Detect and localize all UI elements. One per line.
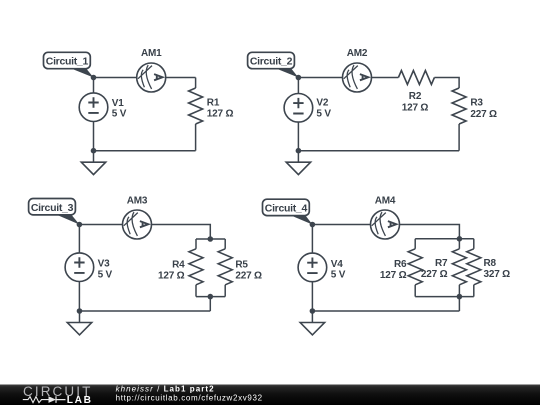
resistor R1 bbox=[189, 88, 203, 124]
svg-text:http://circuitlab.com/cfefuzw2: http://circuitlab.com/cfefuzw2xv932 bbox=[116, 394, 263, 403]
wire top rail C4 left bbox=[312, 224, 370, 226]
wire left rail C2 bottom bbox=[297, 122, 299, 151]
resistor R7 bbox=[452, 249, 466, 285]
svg-text:Circuit_3: Circuit_3 bbox=[31, 202, 74, 214]
svg-text:227 Ω: 227 Ω bbox=[470, 109, 497, 120]
label Circuit_4 bbox=[263, 199, 313, 224]
svg-text:LAB: LAB bbox=[67, 395, 93, 405]
wire top rail C2 left bbox=[298, 77, 342, 79]
svg-text:AM3: AM3 bbox=[127, 195, 148, 206]
svg-text:Circuit_1: Circuit_1 bbox=[46, 56, 89, 68]
svg-text:127 Ω: 127 Ω bbox=[402, 102, 429, 113]
ammeter AM2 bbox=[343, 63, 372, 92]
R6 bottom stub bbox=[414, 285, 416, 297]
node C2 top bbox=[296, 75, 302, 81]
svg-text:327 Ω: 327 Ω bbox=[484, 269, 511, 280]
resistor R3 bbox=[452, 88, 466, 124]
footer background bbox=[0, 385, 540, 405]
voltage source V2 bbox=[284, 94, 313, 123]
resistor R8 bbox=[467, 249, 481, 285]
svg-text:Circuit_4: Circuit_4 bbox=[265, 203, 308, 215]
R8 top stub bbox=[473, 239, 475, 249]
wire bottom rail C1 bbox=[94, 150, 196, 152]
node C1 bottom bbox=[91, 148, 97, 154]
wire bottom rail C3 bbox=[80, 310, 211, 312]
R5 bottom stub bbox=[224, 285, 226, 297]
node C1 top bbox=[91, 75, 97, 81]
node C3 bottom bbox=[77, 308, 83, 314]
svg-text:5 V: 5 V bbox=[112, 109, 127, 120]
logo diode bbox=[49, 396, 57, 403]
svg-text:AM2: AM2 bbox=[347, 48, 368, 59]
svg-text:5 V: 5 V bbox=[316, 108, 331, 119]
wire C4 ammeter to corner bbox=[400, 225, 460, 239]
node C3 parallel top bbox=[208, 236, 214, 242]
wire left rail C4 bottom bbox=[311, 282, 313, 311]
wire C2 ammeter to R2 bbox=[372, 77, 399, 79]
wire top rail C3 left bbox=[79, 224, 122, 226]
label Circuit_3 bbox=[29, 199, 80, 225]
R4 top stub bbox=[195, 239, 197, 249]
resistor R2 bbox=[398, 71, 434, 85]
svg-text:Circuit_2: Circuit_2 bbox=[250, 56, 293, 68]
wire left rail C3 top bbox=[78, 225, 80, 253]
svg-text:R7: R7 bbox=[435, 258, 448, 269]
wire left rail C1 bottom bbox=[93, 122, 95, 151]
resistor R6 bbox=[408, 249, 422, 285]
wire right rail C1 bottom stub bbox=[195, 124, 197, 151]
ground C2 bbox=[286, 151, 310, 175]
ammeter AM1 bbox=[137, 63, 166, 92]
svg-text:R2: R2 bbox=[409, 91, 422, 102]
wire bottom rail C2 bbox=[298, 150, 459, 152]
svg-text:127 Ω: 127 Ω bbox=[380, 270, 407, 281]
svg-text:127 Ω: 127 Ω bbox=[158, 271, 185, 282]
svg-text:V1: V1 bbox=[112, 98, 124, 109]
wire C3 ammeter to corner bbox=[152, 225, 211, 240]
wire C2 R2 to corner bbox=[434, 78, 459, 89]
ground C1 bbox=[81, 151, 105, 175]
svg-text:5 V: 5 V bbox=[98, 269, 113, 280]
voltage source V4 bbox=[298, 253, 327, 282]
wire left rail C2 top bbox=[297, 78, 299, 94]
svg-text:5 V: 5 V bbox=[331, 270, 346, 281]
R7 bottom stub bbox=[458, 285, 460, 297]
R4 bottom stub bbox=[195, 285, 197, 297]
wire right rail C2 bottom stub bbox=[458, 124, 460, 151]
svg-text:V2: V2 bbox=[316, 98, 328, 109]
R8 bottom stub bbox=[473, 285, 475, 297]
label Circuit_2 bbox=[248, 52, 299, 77]
wire top rail C1 bbox=[94, 77, 137, 79]
svg-text:R5: R5 bbox=[235, 259, 248, 270]
wire C3 bottom feed bbox=[209, 297, 211, 311]
svg-text:R6: R6 bbox=[394, 259, 407, 270]
svg-text:R3: R3 bbox=[470, 98, 483, 109]
R6 top stub bbox=[414, 239, 416, 249]
svg-text:R1: R1 bbox=[207, 98, 220, 109]
ground C4 bbox=[300, 311, 324, 335]
node C4 top bbox=[310, 222, 316, 228]
parallel top bar C4 bbox=[415, 238, 474, 240]
wire left rail C4 top bbox=[311, 225, 313, 254]
node C4 parallel top bbox=[457, 236, 463, 242]
R7 top stub bbox=[458, 239, 460, 249]
resistor R4 bbox=[189, 249, 203, 285]
svg-text:AM1: AM1 bbox=[141, 48, 162, 59]
wire bottom rail C4 bbox=[312, 310, 459, 312]
wire C1 ammeter to corner bbox=[166, 77, 196, 79]
wire left rail C1 top bbox=[93, 78, 95, 93]
R5 top stub bbox=[224, 239, 226, 249]
node C4 bottom bbox=[310, 308, 316, 314]
node C3 parallel bottom bbox=[208, 294, 214, 300]
node C4 parallel bottom bbox=[457, 294, 463, 300]
svg-text:V3: V3 bbox=[98, 259, 110, 270]
parallel bottom bar C4 bbox=[415, 296, 474, 298]
wire right rail C1 top stub bbox=[195, 78, 197, 89]
svg-text:khneissr / Lab1 part2: khneissr / Lab1 part2 bbox=[116, 385, 215, 394]
voltage source V3 bbox=[65, 253, 94, 282]
svg-text:V4: V4 bbox=[331, 259, 343, 270]
node C3 top bbox=[77, 222, 83, 228]
resistor R5 bbox=[218, 249, 232, 285]
wire C4 bottom feed bbox=[458, 297, 460, 311]
svg-text:AM4: AM4 bbox=[375, 195, 396, 206]
parallel bottom bar C3 bbox=[196, 296, 225, 298]
node C2 bottom bbox=[296, 148, 302, 154]
logo resistor squiggle bbox=[23, 397, 49, 403]
ground C3 bbox=[67, 311, 91, 335]
voltage source V1 bbox=[79, 93, 108, 122]
svg-text:227 Ω: 227 Ω bbox=[421, 269, 448, 280]
wire left rail C3 bottom bbox=[78, 282, 80, 311]
ammeter AM3 bbox=[123, 210, 152, 239]
svg-text:227 Ω: 227 Ω bbox=[235, 271, 262, 282]
parallel top bar C3 bbox=[196, 238, 225, 240]
ammeter AM4 bbox=[371, 210, 400, 239]
svg-text:127 Ω: 127 Ω bbox=[207, 109, 234, 120]
label Circuit_1 bbox=[44, 52, 94, 77]
svg-text:R4: R4 bbox=[172, 259, 185, 270]
svg-text:R8: R8 bbox=[484, 258, 497, 269]
